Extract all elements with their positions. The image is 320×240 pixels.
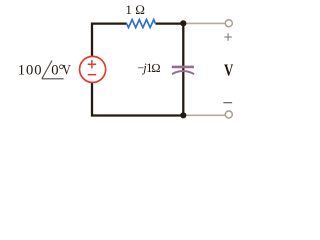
- svg-text:1 Ω: 1 Ω: [125, 2, 145, 17]
- voltage source VS circle: [80, 56, 106, 82]
- capacitor C top plate: [172, 66, 194, 69]
- voltage source plus sign: [88, 60, 96, 68]
- capacitor C bottom curved plate: [172, 71, 194, 74]
- node a junction dot (top): [180, 20, 186, 26]
- terminal top open circle: [225, 20, 232, 27]
- voltage source minus sign: [88, 74, 96, 76]
- svg-text:V: V: [224, 60, 233, 79]
- wire top-right (resistor to node a): [156, 22, 184, 24]
- wire bottom L (from source bottom to node b): [92, 83, 183, 116]
- svg-text:−j1Ω: −j1Ω: [137, 61, 160, 75]
- wire gray lead top (node a to + terminal): [183, 22, 225, 24]
- svg-text:100: 100: [18, 62, 43, 78]
- wire gray lead bottom (node b to - terminal): [183, 114, 225, 116]
- terminal minus mark: [223, 102, 232, 104]
- wire top-left L (from source top to resistor): [92, 24, 127, 56]
- source value label 100 angle 0 deg V: [18, 61, 71, 79]
- svg-text:V: V: [62, 62, 71, 78]
- node b junction dot (bottom): [180, 112, 186, 118]
- wire right rail (node a to node b through capacitor): [182, 24, 184, 116]
- terminal plus mark: [224, 33, 231, 40]
- terminal bottom open circle: [225, 111, 232, 118]
- resistor R (1 ohm) zigzag: [127, 20, 156, 28]
